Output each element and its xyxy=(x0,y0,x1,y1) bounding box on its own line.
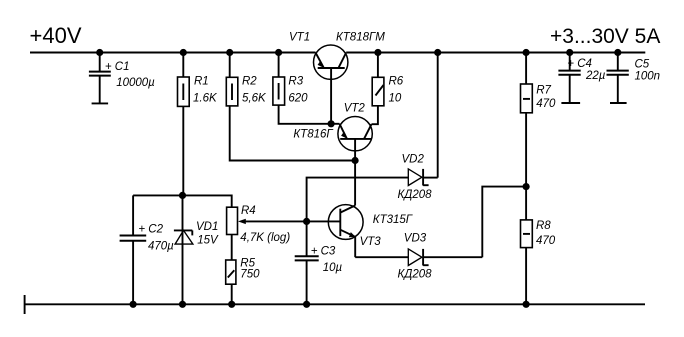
svg-text:+ C3: + C3 xyxy=(311,246,336,258)
resistor R7 xyxy=(521,53,556,113)
svg-text:VD1: VD1 xyxy=(196,221,218,233)
svg-text:+ C2: + C2 xyxy=(138,223,163,235)
wire R3 bottom to VT1 base node xyxy=(279,105,332,124)
svg-text:VD3: VD3 xyxy=(404,232,427,244)
svg-text:VD2: VD2 xyxy=(402,154,425,166)
svg-text:VT2: VT2 xyxy=(344,103,366,115)
diode VD2 xyxy=(398,154,438,201)
resistor R5 xyxy=(226,258,260,285)
wire VD2 branch riser and horizontal xyxy=(307,178,409,222)
wire bottom rail left end tick xyxy=(24,295,26,314)
svg-text:10: 10 xyxy=(389,92,402,104)
node +40V label xyxy=(30,23,82,48)
svg-text:10000µ: 10000µ xyxy=(116,77,155,89)
wire R4 wiper to VT3 base xyxy=(307,220,341,222)
node dot VT2 base / R2 / VT3 collector xyxy=(352,157,359,164)
svg-text:C5: C5 xyxy=(635,58,650,70)
diode VD3 xyxy=(398,232,483,280)
wire top rail left segment xyxy=(30,52,316,54)
node dot C3/bottom rail xyxy=(303,301,310,308)
wire R5 bottom xyxy=(231,284,233,304)
svg-text:VT1: VT1 xyxy=(289,31,310,43)
wire VD3 to R7/R8 node xyxy=(482,187,526,258)
wire R4 to R5 xyxy=(231,235,233,261)
potentiometer R4 xyxy=(227,205,307,244)
node dot VT1 base / R3 / VT2 emitter xyxy=(328,120,335,127)
svg-text:620: 620 xyxy=(288,92,308,104)
node dot R8/bottom rail xyxy=(523,301,530,308)
node dot C1/top rail xyxy=(96,49,103,56)
capacitor C3 xyxy=(295,221,343,304)
svg-text:+3...30V 5A: +3...30V 5A xyxy=(550,25,660,48)
wire R1 bottom to VD1 node xyxy=(182,106,184,195)
svg-text:750: 750 xyxy=(240,269,260,281)
svg-text:КТ315Г: КТ315Г xyxy=(373,214,413,226)
svg-text:100n: 100n xyxy=(635,70,661,82)
wire top rail right segment xyxy=(346,52,645,54)
svg-text:КТ818ГМ: КТ818ГМ xyxy=(336,31,385,43)
wire R2 bottom to VT2 base node xyxy=(230,106,355,161)
svg-text:10µ: 10µ xyxy=(323,262,343,274)
transistor VT1 xyxy=(289,31,385,124)
node dot VD1 top / R1 xyxy=(179,192,186,199)
resistor R2 xyxy=(226,53,267,106)
svg-text:4,7K (log): 4,7K (log) xyxy=(240,232,290,244)
svg-text:470µ: 470µ xyxy=(148,240,174,252)
svg-text:R1: R1 xyxy=(194,75,209,87)
resistor R1 xyxy=(178,53,218,107)
svg-text:КТ816Г: КТ816Г xyxy=(293,129,333,141)
node dot VD1/bottom rail xyxy=(179,301,186,308)
wire VT3 emitter to VD3 xyxy=(355,256,408,258)
node dot R7/top rail xyxy=(523,49,530,56)
svg-text:15V: 15V xyxy=(197,235,219,247)
svg-text:470: 470 xyxy=(536,235,556,247)
transistor VT3 xyxy=(328,205,412,258)
svg-text:R7: R7 xyxy=(536,84,551,96)
node +3...30V 5A label xyxy=(550,25,660,48)
node dot R6/top rail xyxy=(374,49,381,56)
node dot R1/top rail xyxy=(180,49,187,56)
svg-text:VT3: VT3 xyxy=(360,236,382,248)
svg-text:КД208: КД208 xyxy=(398,189,433,201)
svg-text:1.6K: 1.6K xyxy=(193,92,218,104)
capacitor C2 xyxy=(120,195,175,304)
wire R6 bottom to VT2 collector xyxy=(372,106,378,124)
wire C2/VD1/R4 top link xyxy=(133,195,232,207)
svg-text:R2: R2 xyxy=(242,75,257,87)
svg-text:22µ: 22µ xyxy=(585,70,606,82)
svg-text:R6: R6 xyxy=(389,75,404,87)
zener diode VD1 xyxy=(174,195,219,304)
node dot VD2 riser/top rail xyxy=(434,49,441,56)
svg-text:+40V: +40V xyxy=(30,23,82,48)
svg-text:R4: R4 xyxy=(241,205,256,217)
node dot R3/top rail xyxy=(275,49,282,56)
wire bottom rail xyxy=(25,303,645,305)
svg-text:+ C1: + C1 xyxy=(105,61,130,73)
svg-text:КД208: КД208 xyxy=(398,269,433,281)
wire R8 bottom xyxy=(525,248,527,305)
node dot C2/bottom rail xyxy=(130,301,137,308)
wire VT3 collector riser xyxy=(354,161,356,206)
svg-text:+ C4: + C4 xyxy=(567,58,592,70)
transistor VT2 xyxy=(293,103,372,161)
capacitor C1 xyxy=(89,53,155,104)
capacitor C4 xyxy=(558,53,605,104)
capacitor C5 xyxy=(607,53,661,104)
svg-text:5,6K: 5,6K xyxy=(242,92,267,104)
svg-text:R8: R8 xyxy=(536,220,551,232)
node dot R5/bottom rail xyxy=(228,301,235,308)
resistor R8 xyxy=(521,187,556,248)
resistor R3 xyxy=(273,53,308,106)
svg-text:R3: R3 xyxy=(288,75,303,87)
node dot wiper/C3/VD2 branch xyxy=(303,218,310,225)
resistor R6 xyxy=(372,53,404,106)
wire VD2 cathode riser to top rail xyxy=(437,53,439,178)
node dot R2/top rail xyxy=(226,49,233,56)
svg-text:470: 470 xyxy=(536,98,556,110)
node dot R7/R8/VD3 xyxy=(523,183,530,190)
wire R7 bottom to node xyxy=(525,113,527,187)
node dot C5/top rail xyxy=(614,49,621,56)
node dot C4/top rail xyxy=(566,49,573,56)
